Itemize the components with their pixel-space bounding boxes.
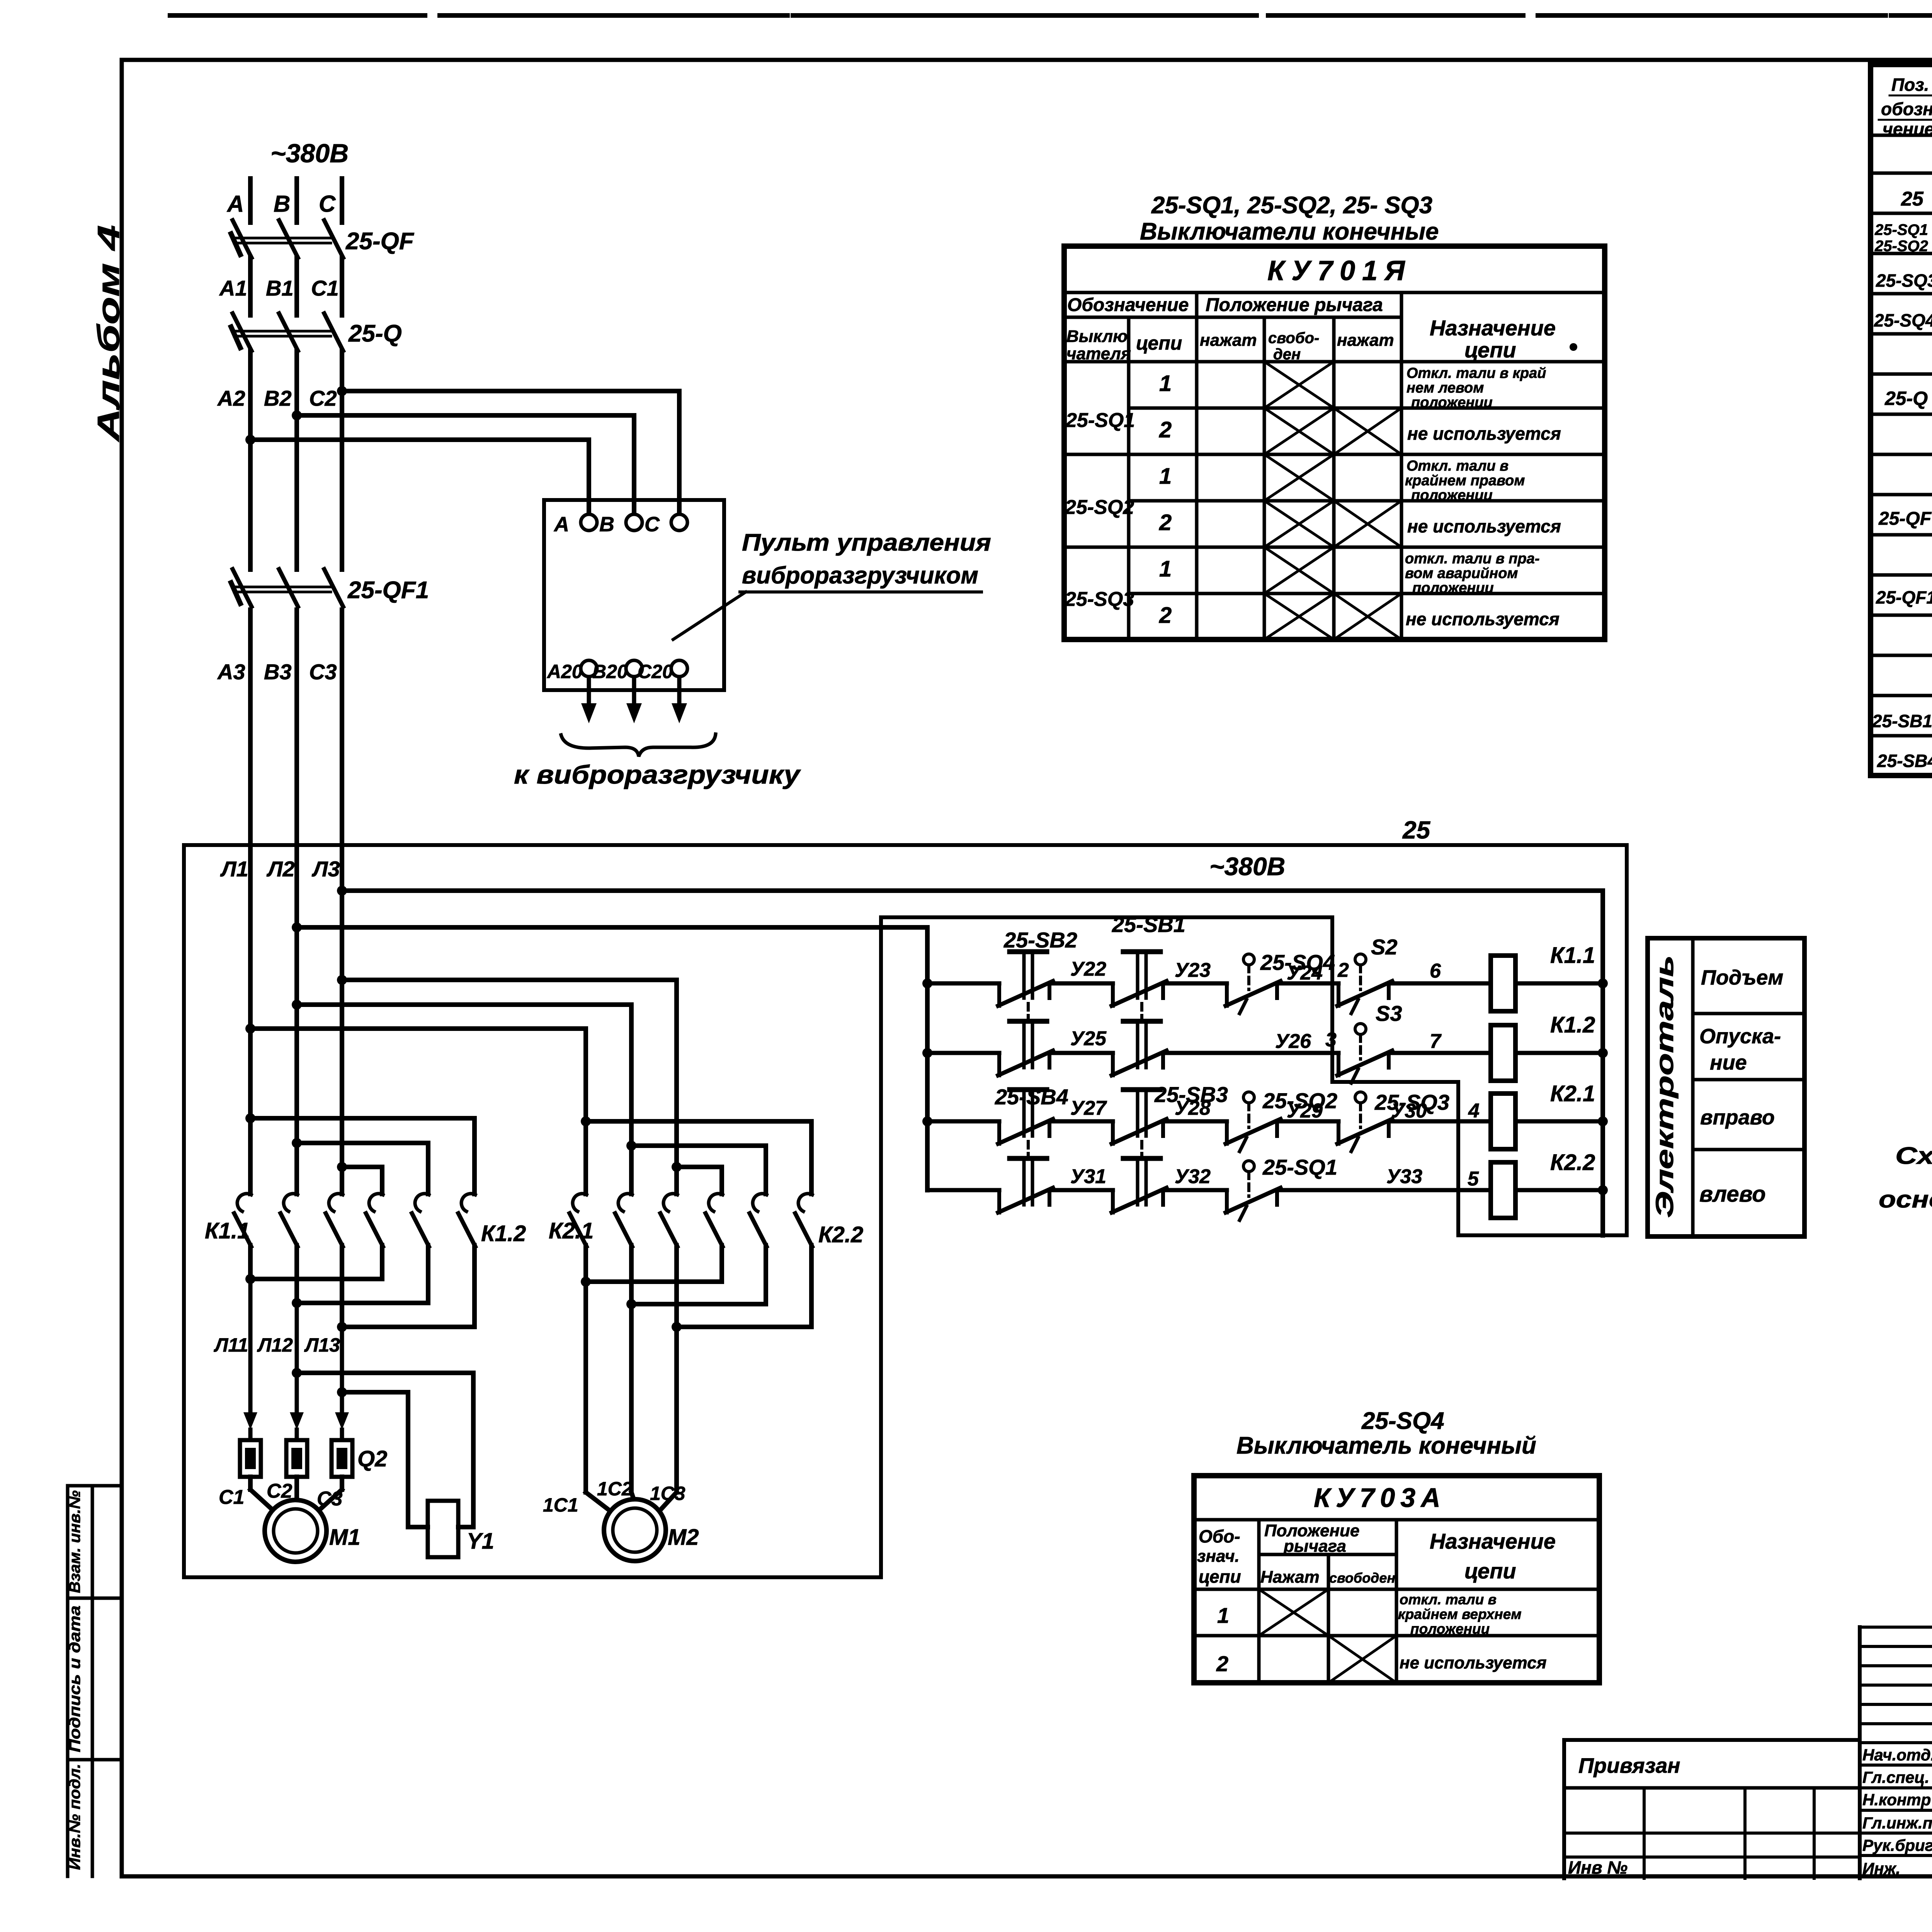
svg-text:Рук.бриг: Рук.бриг [1862,1836,1932,1854]
svg-text:Нач.отд.: Нач.отд. [1862,1746,1932,1764]
svg-text:цепи: цепи [1464,338,1516,362]
svg-text:К2.2: К2.2 [818,1222,863,1247]
svg-text:К2.1: К2.1 [1550,1081,1595,1106]
svg-text:1: 1 [1159,371,1172,396]
svg-text:25-SQ4: 25-SQ4 [1361,1408,1444,1434]
svg-text:25-SB2: 25-SB2 [1003,928,1077,952]
svg-text:У25: У25 [1070,1027,1107,1050]
svg-text:3: 3 [1325,1029,1337,1051]
svg-text:чателя: чателя [1066,344,1131,363]
svg-text:чение: чение [1883,119,1932,139]
svg-text:У26: У26 [1275,1030,1311,1053]
svg-text:свободен: свободен [1329,1570,1395,1586]
svg-text:~380В: ~380В [270,139,349,168]
svg-text:Назначение: Назначение [1430,1529,1556,1553]
svg-text:К1.1: К1.1 [205,1218,250,1243]
svg-text:А20: А20 [546,661,583,682]
svg-text:1: 1 [1159,556,1172,582]
svg-text:Л2: Л2 [266,857,295,881]
svg-text:25: 25 [1901,188,1924,210]
svg-text:Подпись и дата: Подпись и дата [66,1605,83,1752]
svg-text:цепи: цепи [1464,1559,1516,1583]
svg-text:Подъем: Подъем [1701,966,1783,989]
svg-text:вправо: вправо [1700,1106,1775,1129]
svg-text:1С1: 1С1 [543,1494,578,1516]
svg-text:У31: У31 [1070,1165,1106,1188]
svg-text:Откл. тали в: Откл. тали в [1406,458,1509,474]
svg-text:С: С [319,191,336,217]
svg-text:У33: У33 [1386,1165,1422,1188]
svg-text:К1.1: К1.1 [1550,943,1595,968]
svg-text:25-SQ4: 25-SQ4 [1874,310,1932,330]
svg-text:А: А [226,191,244,217]
svg-text:вом аварийном: вом аварийном [1405,565,1518,582]
svg-text:С3: С3 [317,1488,343,1510]
svg-text:Альбом 4: Альбом 4 [91,225,126,442]
svg-text:25-SQ1: 25-SQ1 [1065,409,1135,432]
svg-text:Поз.: Поз. [1891,75,1929,95]
svg-text:рычага: рычага [1283,1537,1346,1556]
svg-text:4: 4 [1468,1100,1480,1122]
svg-text:цепи: цепи [1199,1566,1241,1587]
svg-text:А: А [553,513,569,536]
svg-text:С2: С2 [267,1480,293,1502]
svg-text:2: 2 [1159,510,1172,535]
svg-text:Электроталь: Электроталь [1651,955,1679,1218]
svg-text:влево: влево [1699,1182,1766,1207]
svg-text:25-QF1: 25-QF1 [347,577,429,604]
svg-text:Л12: Л12 [257,1334,293,1356]
svg-text:У27: У27 [1070,1097,1107,1119]
svg-text:не используется: не используется [1406,609,1560,629]
svg-text:Y1: Y1 [467,1529,494,1554]
svg-text:С20: С20 [638,661,673,682]
svg-text:25-QF: 25-QF [345,228,415,255]
svg-text:25-QF: 25-QF [1878,509,1932,529]
svg-text:Выключатель конечный: Выключатель конечный [1236,1432,1536,1459]
svg-text:2: 2 [1159,603,1172,628]
svg-text:С1: С1 [219,1486,244,1509]
svg-text:знач.: знач. [1197,1547,1240,1566]
svg-text:25-Q: 25-Q [348,320,402,347]
svg-text:ден: ден [1273,346,1301,363]
svg-text:ние: ние [1710,1051,1747,1074]
svg-text:А1: А1 [219,276,247,300]
svg-text:25-SB1: 25-SB1 [1112,912,1185,937]
svg-text:25-SB1...: 25-SB1... [1872,711,1932,731]
svg-text:С3: С3 [309,660,337,684]
svg-text:У22: У22 [1070,958,1106,980]
svg-text:В2: В2 [264,386,292,410]
svg-text:25-SQ2: 25-SQ2 [1874,238,1928,255]
svg-text:А2: А2 [217,386,245,410]
svg-text:свобо-: свобо- [1268,330,1319,347]
svg-text:25-SB4: 25-SB4 [1877,751,1932,771]
svg-text:Инж.: Инж. [1862,1859,1900,1878]
svg-text:У32: У32 [1175,1165,1211,1188]
svg-text:25-SQ1: 25-SQ1 [1262,1155,1337,1179]
svg-text:У28: У28 [1175,1097,1211,1119]
svg-text:Пульт управления: Пульт управления [742,529,991,556]
svg-text:С1: С1 [311,276,339,300]
svg-text:нажат: нажат [1337,331,1394,350]
svg-text:1: 1 [1217,1603,1229,1628]
svg-text:положении: положении [1411,395,1493,411]
svg-text:К2.2: К2.2 [1550,1150,1595,1175]
svg-text:С: С [645,513,660,536]
svg-text:КУ703А: КУ703А [1314,1483,1446,1513]
svg-text:25-SB4: 25-SB4 [995,1085,1068,1109]
svg-text:Назначение: Назначение [1430,316,1556,340]
svg-text:не используется: не используется [1407,516,1561,536]
svg-text:25-SQ3: 25-SQ3 [1876,270,1932,291]
svg-text:S3: S3 [1376,1001,1402,1026]
svg-text:крайнем верхнем: крайнем верхнем [1398,1606,1522,1622]
svg-text:Схема управления электроталь: Схема управления электроталью выполнена … [1895,1143,1932,1169]
svg-text:цепи: цепи [1136,332,1182,354]
svg-text:У24: У24 [1287,962,1323,984]
svg-text:25: 25 [1402,816,1431,844]
svg-text:Положение рычага: Положение рычага [1206,295,1383,315]
svg-text:У23: У23 [1175,959,1211,981]
svg-text:откл. тали в пра-: откл. тали в пра- [1405,551,1539,567]
svg-text:Гл.инж.пр: Гл.инж.пр [1862,1814,1932,1832]
svg-text:В20: В20 [592,661,628,682]
svg-text:Инв.№ подл.: Инв.№ подл. [66,1764,83,1870]
svg-text:С2: С2 [309,386,337,410]
svg-text:Взам. инв.№: Взам. инв.№ [66,1490,83,1593]
svg-text:виброразгрузчиком: виброразгрузчиком [742,562,978,589]
svg-text:М1: М1 [329,1525,361,1550]
svg-text:крайнем правом: крайнем правом [1405,473,1525,489]
svg-text:S2: S2 [1371,935,1398,959]
svg-text:Нажат: Нажат [1260,1568,1320,1587]
svg-text:У30: У30 [1391,1100,1427,1122]
svg-text:Л13: Л13 [304,1334,340,1356]
svg-text:Л11: Л11 [214,1334,248,1356]
svg-text:2: 2 [1216,1651,1228,1676]
svg-text:25-SQ3: 25-SQ3 [1065,588,1134,611]
svg-text:Л1: Л1 [220,857,248,881]
svg-text:основании чертежа ТЭ55193 Х: основании чертежа ТЭ55193 Харьковского з… [1879,1186,1932,1213]
svg-text:Гл.спец.: Гл.спец. [1862,1768,1929,1786]
svg-text:25-QF1: 25-QF1 [1876,587,1932,607]
svg-text:нем левом: нем левом [1406,380,1484,396]
svg-text:Привязан: Привязан [1578,1753,1680,1777]
svg-text:Обозначение: Обозначение [1067,295,1189,315]
svg-text:25-SQ1, 25-SQ2, 25- SQ3: 25-SQ1, 25-SQ2, 25- SQ3 [1151,192,1432,219]
svg-text:7: 7 [1430,1030,1442,1053]
svg-text:КУ701Я: КУ701Я [1267,255,1412,286]
svg-text:Л3: Л3 [311,857,340,881]
svg-text:25-Q: 25-Q [1884,388,1928,409]
svg-text:2: 2 [1159,417,1172,442]
svg-text:Н.контр: Н.контр [1862,1791,1931,1809]
svg-text:5: 5 [1468,1168,1479,1190]
svg-text:К1.2: К1.2 [1550,1012,1595,1037]
svg-text:2: 2 [1337,959,1349,981]
svg-text:положении: положении [1412,580,1494,596]
svg-text:Инв №: Инв № [1568,1857,1628,1878]
svg-text:~380В: ~380В [1209,852,1285,881]
svg-text:В1: В1 [266,276,294,300]
svg-text:У29: У29 [1287,1100,1323,1122]
svg-text:6: 6 [1430,960,1441,982]
svg-text:В: В [599,513,614,536]
svg-text:Выключатели конечные: Выключатели конечные [1140,218,1439,245]
svg-text:Выклю: Выклю [1066,327,1128,346]
svg-text:не используется: не используется [1407,423,1561,444]
svg-text:Откл. тали в край: Откл. тали в край [1406,365,1546,381]
svg-text:не используется: не используется [1400,1653,1547,1672]
svg-text:К1.2: К1.2 [481,1221,526,1246]
svg-text:25-SQ1: 25-SQ1 [1874,221,1928,238]
svg-text:А3: А3 [217,660,245,684]
svg-text:1: 1 [1159,464,1172,489]
svg-text:Q2: Q2 [357,1446,387,1471]
svg-text:Опуска-: Опуска- [1699,1025,1781,1048]
svg-text:нажат: нажат [1200,331,1257,350]
svg-text:М2: М2 [668,1525,699,1550]
svg-text:Обо-: Обо- [1199,1526,1240,1546]
svg-text:В: В [274,191,290,217]
svg-text:откл. тали в: откл. тали в [1400,1592,1497,1607]
svg-text:положении: положении [1411,487,1493,503]
svg-text:обозна: обозна [1881,99,1932,119]
svg-text:25-SQ2: 25-SQ2 [1065,496,1134,519]
svg-text:положении: положении [1410,1621,1490,1637]
svg-text:1С2: 1С2 [597,1478,633,1500]
svg-text:1С3: 1С3 [650,1483,685,1504]
svg-text:В3: В3 [264,660,292,684]
svg-text:К2.1: К2.1 [549,1218,594,1243]
svg-text:к виброразгрузчику: к виброразгрузчику [514,760,801,789]
